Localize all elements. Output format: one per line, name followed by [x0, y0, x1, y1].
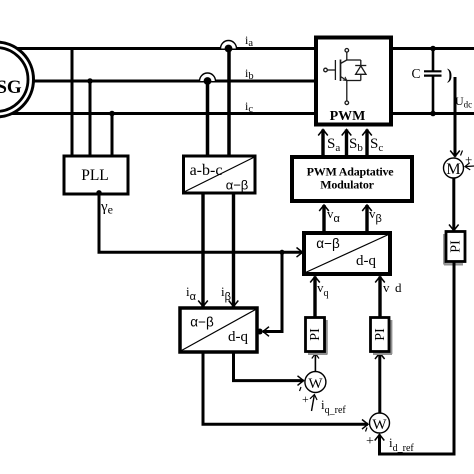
svg-text:iα: iα — [186, 284, 197, 303]
wire gamma-e branch — [263, 252, 282, 331]
wire Sa — [321, 130, 324, 158]
svg-text:α−β: α−β — [316, 236, 340, 251]
dq to alpha-beta block — [304, 233, 390, 274]
svg-text:iq_ref: iq_ref — [321, 397, 346, 416]
label minus Udc — [461, 151, 463, 156]
current sensor ib — [200, 73, 216, 85]
summing junction iq — [305, 372, 326, 393]
svg-text:α−β: α−β — [190, 315, 214, 330]
wire PLL tap b — [89, 81, 92, 156]
node PLL out — [96, 190, 101, 195]
svg-text:Sa: Sa — [327, 136, 340, 154]
summing junction id — [370, 413, 390, 433]
wire PLL tap a — [71, 49, 74, 157]
wire vbeta — [365, 205, 368, 233]
wire DC bus + — [391, 47, 474, 50]
svg-text:γe: γe — [100, 199, 113, 217]
svg-text:vβ: vβ — [369, 206, 382, 225]
svg-text:+: + — [366, 434, 374, 449]
wire sensor-b drop — [206, 81, 210, 156]
svg-text:iβ: iβ — [221, 284, 231, 303]
alpha-beta to dq current block — [180, 308, 257, 352]
svg-text:ib: ib — [245, 66, 254, 82]
svg-text:PI: PI — [449, 240, 464, 253]
svg-text:W: W — [372, 417, 387, 433]
wire vd — [378, 277, 381, 318]
svg-text:PWM Adaptative: PWM Adaptative — [307, 165, 395, 179]
wire Sc — [365, 130, 368, 158]
PLL block — [64, 156, 128, 194]
wire Udc sense — [454, 77, 457, 157]
label minus iq — [300, 387, 302, 391]
svg-text:vα: vα — [327, 206, 341, 225]
svg-text:Udc: Udc — [455, 94, 472, 110]
transistor IGBT with diode — [324, 49, 367, 105]
wire iq_ref stub — [312, 395, 315, 412]
wire sensor-a drop — [227, 49, 231, 157]
svg-text:W: W — [308, 376, 323, 392]
label minus id — [366, 428, 368, 432]
svg-text:d: d — [395, 280, 402, 295]
wire phase c — [0, 112, 316, 115]
node tap b — [87, 78, 93, 84]
PI regulator d — [371, 318, 393, 355]
svg-text:d-q: d-q — [356, 253, 376, 269]
node tap c — [109, 111, 115, 117]
svg-text:Modulator: Modulator — [320, 178, 374, 192]
svg-text:v: v — [383, 280, 390, 295]
PI regulator Udc — [444, 232, 465, 265]
wire i-beta — [232, 193, 235, 307]
wire gamma-e — [99, 193, 303, 252]
svg-text:vq: vq — [317, 280, 329, 299]
wire valpha — [322, 205, 325, 233]
svg-text:Sb: Sb — [349, 136, 363, 154]
wire PLL tap c — [111, 114, 114, 157]
wire phase b — [0, 80, 316, 83]
node dq angle pin — [257, 329, 263, 335]
svg-text:PLL: PLL — [81, 167, 109, 184]
svg-text:ia: ia — [245, 33, 253, 49]
svg-text:): ) — [447, 67, 452, 84]
wire Sb — [345, 130, 348, 158]
svg-text:α−β: α−β — [226, 178, 249, 193]
wire Udc_ref — [465, 165, 474, 168]
svg-text:+: + — [302, 392, 309, 406]
svg-text:d-q: d-q — [228, 329, 248, 345]
wire iq PI in — [314, 354, 316, 372]
svg-text:PI: PI — [373, 328, 388, 341]
wire iq measured — [234, 352, 304, 381]
PWM converter block — [316, 38, 391, 125]
node cap top — [430, 46, 436, 52]
current sensor ia — [221, 41, 237, 53]
wire id PI in — [378, 353, 381, 413]
svg-text:C: C — [412, 66, 421, 81]
summing junction Udc — [444, 158, 464, 178]
wire DC bus - — [391, 112, 474, 115]
svg-text:+: + — [465, 152, 472, 167]
svg-text:a-b-c: a-b-c — [190, 162, 223, 179]
svg-text:PWM: PWM — [330, 109, 366, 124]
wire phase a — [0, 47, 316, 50]
svg-text:Sc: Sc — [370, 136, 383, 154]
a-b-c / alpha-beta block — [184, 156, 256, 193]
generator SG — [0, 42, 34, 117]
PWM Adaptative Modulator block — [292, 157, 412, 201]
capacitor C — [412, 49, 442, 114]
wire Udc PI in — [452, 178, 455, 231]
node gamma branch — [280, 250, 285, 255]
wire id measured — [203, 352, 368, 424]
wire id_ref loop — [380, 262, 455, 455]
svg-text:PI: PI — [308, 328, 323, 341]
svg-text:M: M — [446, 161, 460, 178]
svg-text:ic: ic — [245, 99, 253, 115]
PI regulator q — [306, 318, 328, 355]
svg-text:SG: SG — [0, 77, 22, 98]
svg-text:id_ref: id_ref — [389, 435, 414, 454]
node cap bottom — [430, 111, 436, 117]
wire i-alpha — [201, 193, 204, 307]
wire vq — [313, 277, 316, 318]
